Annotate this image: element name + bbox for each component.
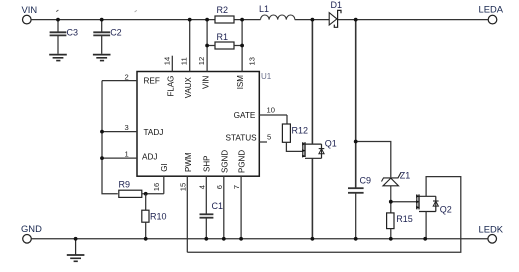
node ground rail junctions	[74, 237, 427, 241]
resistor R9	[119, 180, 142, 198]
op-amp U1 (IC box)	[137, 72, 272, 177]
resistor R1	[215, 32, 234, 49]
wire Q2 source down	[425, 212, 427, 239]
svg-text:SHP: SHP	[202, 156, 211, 172]
pin 3 TADJ	[102, 123, 163, 137]
resistor R12	[282, 124, 308, 142]
pin 11 VAUX	[180, 20, 193, 99]
svg-text:4: 4	[197, 185, 206, 189]
node C9/Z1 junction	[354, 140, 358, 144]
svg-text:GATE: GATE	[234, 111, 256, 120]
resistor R15	[387, 202, 413, 239]
svg-text:ADJ: ADJ	[142, 152, 157, 161]
svg-text:GND: GND	[21, 223, 42, 234]
inductor L1	[259, 4, 295, 20]
svg-text:C2: C2	[110, 28, 122, 38]
pin 6 SGND	[215, 150, 230, 239]
svg-text:2: 2	[125, 72, 129, 81]
wire Q1 source down	[311, 158, 313, 239]
svg-text:U1: U1	[261, 72, 272, 81]
svg-text:R9: R9	[119, 180, 131, 190]
svg-text:PWM: PWM	[184, 152, 193, 172]
capacitor C1	[200, 201, 224, 239]
svg-text:R15: R15	[396, 214, 413, 224]
svg-text:13: 13	[247, 57, 256, 65]
wire R1 right	[234, 45, 242, 47]
svg-text:11: 11	[180, 57, 189, 65]
node R1 junctions	[205, 44, 244, 48]
pin 10 GATE	[234, 105, 287, 120]
pin 12 VIN	[197, 20, 210, 89]
svg-text:FLAG: FLAG	[167, 76, 176, 97]
terminal GND	[21, 223, 42, 243]
resistor R2	[215, 5, 234, 23]
svg-text:REF: REF	[144, 77, 160, 86]
pin 2 REF	[102, 72, 160, 85]
pin 5 STATUS	[226, 133, 272, 143]
svg-text:3: 3	[125, 123, 129, 132]
pin 13 ISM	[236, 20, 256, 90]
pin 15 PWM	[178, 152, 193, 252]
svg-text:16: 16	[152, 183, 161, 191]
svg-text:7: 7	[232, 185, 241, 189]
svg-text:ISM: ISM	[236, 75, 245, 90]
svg-text:C1: C1	[212, 201, 224, 211]
svg-text:R10: R10	[150, 212, 167, 222]
node R9/R10 junction	[144, 192, 148, 196]
terminal VIN	[22, 4, 38, 24]
capacitor C2	[93, 20, 121, 54]
svg-text:R2: R2	[217, 5, 229, 15]
pin 7 PGND	[232, 150, 247, 239]
node top rail junctions	[56, 18, 358, 22]
zener Z1	[382, 170, 411, 201]
wire R9 right to pin16	[142, 193, 164, 195]
artifact mark near pin14 line	[135, 10, 137, 12]
node ADJ junction	[100, 156, 104, 160]
ground symbol under C2	[93, 55, 111, 61]
wire GATE to R12	[286, 115, 288, 124]
ground symbol under C3	[49, 55, 67, 61]
diode D1	[329, 0, 342, 27]
wire L1 to D1	[295, 19, 330, 21]
svg-text:VAUX: VAUX	[184, 76, 193, 98]
transistor Q2	[416, 194, 452, 214]
svg-text:C3: C3	[67, 28, 79, 38]
ground symbol	[67, 239, 85, 261]
svg-text:5: 5	[267, 133, 271, 142]
resistor R10	[142, 194, 167, 239]
pin 1 ADJ	[102, 150, 157, 162]
terminal LEDA	[479, 4, 504, 24]
wire Q2 drain loop from pin 15	[187, 177, 461, 253]
wire R1 left	[207, 45, 215, 47]
svg-text:SGND: SGND	[220, 150, 229, 173]
pin 14 FLAG	[162, 56, 175, 97]
svg-text:VIN: VIN	[201, 75, 210, 89]
svg-text:VIN: VIN	[22, 4, 38, 15]
svg-text:R12: R12	[292, 126, 309, 136]
svg-text:Z1: Z1	[400, 170, 411, 180]
node TADJ junction	[100, 130, 104, 134]
svg-text:R1: R1	[217, 32, 229, 42]
pin 16 GI	[152, 163, 169, 193]
pin 4 SHP	[197, 156, 211, 214]
wire R2 right to L1	[234, 19, 261, 21]
svg-text:PGND: PGND	[238, 150, 247, 173]
svg-text:Q1: Q1	[325, 139, 337, 149]
svg-text:STATUS: STATUS	[226, 134, 258, 143]
wire D1 to LEDA	[338, 19, 488, 21]
svg-text:10: 10	[267, 105, 275, 114]
svg-text:Q2: Q2	[440, 204, 452, 214]
svg-text:GI: GI	[160, 163, 169, 171]
wire Z1 node to Q2 gate	[391, 201, 417, 203]
svg-text:L1: L1	[259, 4, 269, 14]
wire R12 to Q1 gate	[286, 142, 302, 151]
svg-text:D1: D1	[331, 0, 343, 10]
svg-text:12: 12	[197, 57, 206, 65]
svg-text:15: 15	[178, 183, 187, 191]
wire ground rail	[31, 238, 488, 240]
svg-text:TADJ: TADJ	[144, 128, 164, 137]
wire left rail REF to R9	[102, 81, 118, 194]
wire C9 node to Z1	[356, 142, 391, 178]
svg-text:LEDA: LEDA	[479, 4, 504, 15]
svg-text:1: 1	[125, 150, 129, 159]
artifact mark near C3	[56, 10, 58, 12]
svg-text:6: 6	[215, 185, 224, 189]
wire Q1 drain up	[311, 20, 313, 145]
terminal LEDK	[479, 224, 504, 244]
svg-text:C9: C9	[360, 176, 372, 186]
svg-text:LEDK: LEDK	[479, 224, 504, 235]
capacitor C3	[50, 20, 78, 54]
wire top rail VIN to R2	[31, 19, 215, 21]
transistor Q1	[302, 139, 337, 159]
svg-text:14: 14	[162, 57, 171, 65]
node Z1/R15/Q2 junction	[389, 200, 393, 204]
capacitor C9	[348, 20, 371, 239]
